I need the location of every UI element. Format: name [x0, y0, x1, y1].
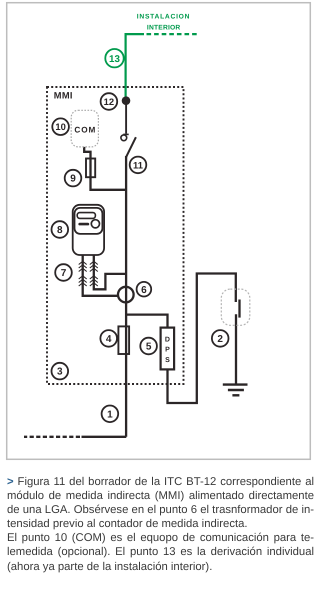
svg-text:10: 10 — [55, 121, 65, 132]
svg-text:INSTALACION: INSTALACION — [137, 14, 190, 21]
svg-text:2: 2 — [217, 334, 223, 345]
svg-text:13: 13 — [109, 54, 120, 65]
svg-text:9: 9 — [70, 174, 76, 185]
svg-text:INTERIOR: INTERIOR — [147, 24, 181, 31]
svg-text:4: 4 — [106, 334, 112, 345]
svg-text:MMI: MMI — [54, 91, 73, 101]
svg-text:1: 1 — [107, 409, 113, 420]
svg-text:7: 7 — [61, 268, 67, 279]
svg-text:D: D — [165, 337, 170, 344]
svg-text:12: 12 — [104, 96, 114, 107]
svg-text:6: 6 — [141, 285, 147, 296]
svg-text:S: S — [165, 357, 170, 364]
svg-text:3: 3 — [57, 367, 63, 378]
svg-text:P: P — [165, 347, 170, 354]
svg-text:11: 11 — [133, 159, 143, 170]
svg-text:5: 5 — [146, 342, 152, 353]
svg-text:COM: COM — [74, 125, 96, 134]
svg-text:8: 8 — [57, 225, 63, 236]
